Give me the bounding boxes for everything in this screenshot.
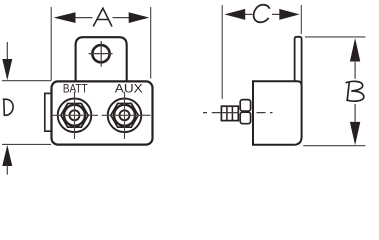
dimension C right extension line <box>300 5 302 34</box>
mounting tab (front view) <box>76 37 127 81</box>
BATT terminal outer circle <box>58 99 92 133</box>
left key tab on body <box>45 93 52 131</box>
stud thread lines <box>227 106 233 120</box>
dimension D top extension line <box>2 80 51 82</box>
label D <box>3 99 13 115</box>
dimension B top extension line <box>305 36 365 38</box>
dimension A left extension line <box>50 7 52 81</box>
switch body (side view) <box>253 81 302 145</box>
label A <box>94 8 112 26</box>
switch body (front view) <box>52 81 153 144</box>
dimension B top tail <box>354 61 356 79</box>
BATT terminal inner ring <box>64 105 85 126</box>
BATT terminal stud circle <box>70 110 80 120</box>
dimension C right arrow <box>279 9 299 20</box>
dimension A right extension line <box>150 7 152 79</box>
stud nut upper facet (side view) <box>240 100 250 112</box>
bracket tab (side view) <box>295 37 302 85</box>
label B <box>346 81 364 101</box>
dimension D bottom arrow <box>2 145 12 166</box>
dimension B bottom tail <box>354 104 356 123</box>
AUX terminal inner ring <box>114 105 135 126</box>
dimension D bottom extension line <box>2 143 51 145</box>
BATT terminal crosshair <box>52 92 98 139</box>
dimension B bottom arrow <box>350 122 360 145</box>
dimension B bottom extension line <box>303 145 365 147</box>
mounting hole <box>92 45 109 62</box>
dimension C line <box>244 13 281 15</box>
svg-text:AUX: AUX <box>115 81 143 95</box>
AUX terminal stud circle <box>120 110 130 120</box>
AUX terminal hex nut <box>111 103 138 127</box>
dimension D top arrow tail <box>6 42 8 60</box>
svg-text:BATT: BATT <box>63 83 88 96</box>
mounting hole crosshair <box>89 41 113 67</box>
dimension A right arrow <box>129 12 150 23</box>
centerline through stud <box>203 112 273 114</box>
dimension D top arrow <box>2 59 12 80</box>
AUX terminal outer circle <box>108 99 142 133</box>
dimension C left arrow <box>224 9 245 20</box>
label C <box>254 5 270 23</box>
BATT terminal hex nut <box>61 103 88 127</box>
dimension C left extension line <box>221 5 223 99</box>
BATT label <box>63 83 88 96</box>
AUX terminal crosshair <box>102 92 151 139</box>
dimension A line <box>75 17 130 19</box>
dimension B top arrow <box>350 38 360 62</box>
terminal stud (side view) <box>221 106 238 120</box>
stud nut lower facet (side view) <box>240 112 250 124</box>
dimension A left arrow <box>54 12 76 23</box>
dimension D bottom arrow tail <box>6 165 8 175</box>
AUX label <box>115 81 143 95</box>
